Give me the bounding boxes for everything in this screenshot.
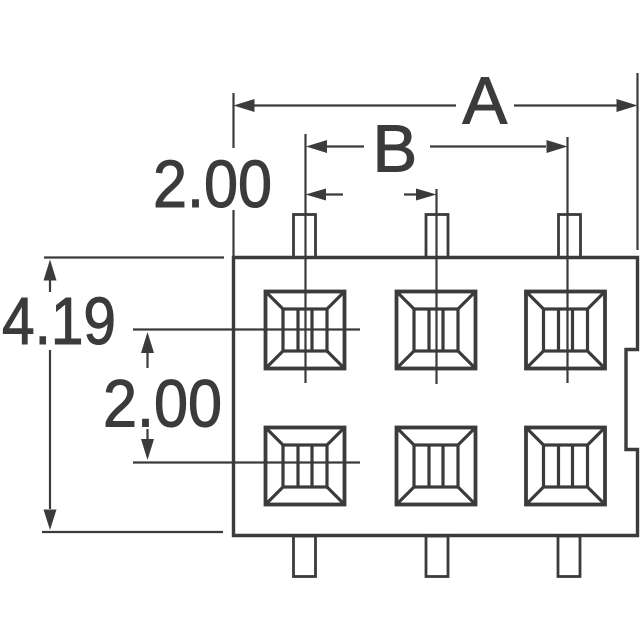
arrowhead 2.00v down <box>141 439 154 460</box>
arrowhead 4.19 down <box>44 510 57 531</box>
dimension line 2.00 vertical <box>146 353 148 439</box>
extension line body right (dim A) <box>636 73 638 250</box>
dimension line 2.00 horizontal <box>326 193 416 195</box>
svg-text:4.19: 4.19 <box>2 284 116 359</box>
extension line left of body bottom edge <box>42 531 223 533</box>
arrowhead A left <box>234 99 255 112</box>
contact cavity row2 col1 <box>266 428 345 505</box>
pin 1 top lead <box>294 215 316 258</box>
contact cavity row2 col3 <box>526 428 605 505</box>
centerline column 2 <box>435 189 437 384</box>
dimension line B <box>327 145 546 147</box>
centerline column 3 <box>566 137 568 383</box>
arrowhead 2.00v up <box>141 332 154 353</box>
svg-text:2.00: 2.00 <box>103 367 222 442</box>
pin 2 top lead <box>426 215 448 258</box>
arrowhead 2.00 right <box>416 189 437 201</box>
extension line left of body top edge <box>44 256 224 258</box>
dimension line 4.19 vertical <box>49 280 51 509</box>
arrowhead 4.19 up <box>44 260 57 281</box>
arrowhead A right <box>617 99 638 112</box>
pin 5 bottom lead <box>426 536 448 577</box>
pin 6 bottom lead <box>558 536 580 577</box>
pin 4 bottom lead <box>294 536 316 577</box>
contact cavity row2 col2 <box>397 428 476 505</box>
contact cavity row1 col3 <box>526 292 605 369</box>
centerline column 1 <box>304 134 306 383</box>
centerline row 1 <box>133 328 360 330</box>
arrowhead B right <box>547 140 568 153</box>
dimension line A <box>247 104 625 106</box>
svg-text:2.00: 2.00 <box>153 147 272 222</box>
housing body outline <box>234 258 638 536</box>
svg-text:B: B <box>373 112 418 187</box>
centerline row 2 <box>133 461 360 463</box>
svg-text:A: A <box>463 64 508 139</box>
arrowhead 2.00 left <box>306 189 327 201</box>
contact cavity row1 col2 <box>397 292 476 369</box>
pin 3 top lead <box>559 215 581 258</box>
contact cavity row1 col1 <box>266 292 345 369</box>
extension line body left (dim A) <box>232 93 234 256</box>
arrowhead B left <box>306 140 327 153</box>
